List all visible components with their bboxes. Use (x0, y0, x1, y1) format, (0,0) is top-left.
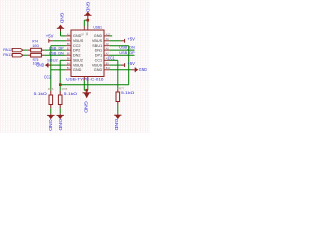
svg-text:R76: R76 (48, 87, 54, 91)
svg-text:CC2: CC2 (73, 44, 81, 48)
wire SBU1 down to bottom bus (128, 46, 130, 85)
wire up to top-left ground flag (60, 31, 62, 36)
svg-text:DN1: DN1 (95, 48, 103, 52)
svg-text:PA11: PA11 (3, 52, 13, 57)
junction dot top (87, 19, 90, 22)
wire joining shield pins (84, 89, 88, 91)
svg-text:SBU2: SBU2 (47, 58, 58, 62)
svg-text:GND: GND (83, 101, 88, 113)
svg-text:10Ω: 10Ω (32, 43, 39, 48)
wire CC2 vertical down (50, 46, 52, 91)
svg-text:GND: GND (58, 119, 63, 131)
junction dot shield ground (85, 89, 88, 92)
svg-text:USB-TYPE-C-016: USB-TYPE-C-016 (66, 77, 103, 82)
svg-text:GND: GND (73, 34, 82, 38)
wire PA11 to R75 (23, 54, 28, 56)
resistor R75 10R series DN (28, 53, 45, 65)
netport PA12 (3, 47, 23, 52)
svg-text:SBU2: SBU2 (73, 59, 83, 63)
svg-text:VBUS: VBUS (73, 39, 84, 43)
wire PA12 to R74 (23, 49, 28, 51)
connector USB1 USB Type-C receptacle body (71, 30, 104, 77)
wire R77 to ground (117, 105, 119, 113)
svg-text:GND: GND (94, 34, 103, 38)
svg-text:GND: GND (36, 63, 44, 68)
svg-text:GND: GND (59, 13, 64, 24)
netport PA11 (3, 52, 23, 57)
resistor R78 SBU pulldown 5.1k (58, 87, 77, 108)
wire row8 left GND (50, 69, 65, 71)
wire row3 right SBU1 (109, 45, 128, 47)
left pin stubs (66, 35, 71, 37)
svg-text:GND: GND (94, 68, 103, 72)
wire row6 left SBU2 (60, 59, 65, 61)
svg-text:R78: R78 (62, 87, 68, 91)
wire row7 right VBUS (109, 64, 121, 66)
wires bottom shield pins down through bus (83, 80, 85, 90)
wire CC1 vertical down (117, 60, 119, 89)
wires top shield pins (83, 20, 85, 26)
svg-text:+5V: +5V (127, 61, 135, 66)
svg-text:GND: GND (114, 119, 119, 131)
ground flag bottom-mid (57, 114, 64, 132)
svg-text:USB_DP: USB_DP (119, 50, 135, 55)
wire row7 left VBUS to ground flag (51, 64, 66, 66)
wire row2 right VBUS (109, 40, 121, 42)
svg-text:SBU1: SBU1 (92, 44, 102, 48)
junction dot bottom bus left (59, 83, 62, 86)
ground flag bottom-center (shield) (83, 90, 91, 113)
svg-text:VBUS: VBUS (92, 63, 103, 67)
wire row4 left DP2 (44, 49, 65, 51)
top shield pin stubs (83, 26, 85, 30)
resistor R74 10R series DP (28, 39, 45, 52)
wire row4 right DN1 (109, 49, 134, 51)
svg-text:CC1: CC1 (108, 55, 116, 60)
svg-text:5.1kΩ: 5.1kΩ (34, 92, 47, 96)
svg-text:GND: GND (86, 2, 91, 13)
svg-text:DP1: DP1 (95, 53, 102, 57)
right pin stubs (104, 35, 109, 37)
wire row8 right GND (109, 69, 132, 71)
wire bottom bus (60, 84, 129, 86)
ground flag bottom-left (47, 114, 54, 132)
svg-text:GND: GND (139, 67, 147, 72)
resistor R77 CC1 pulldown 5.1k (116, 86, 134, 105)
svg-text:+5V: +5V (46, 33, 54, 38)
svg-text:VBUS: VBUS (73, 63, 84, 67)
power flag +5V right top (121, 37, 135, 43)
svg-text:R77: R77 (119, 86, 125, 90)
wire row6 right CC1 (109, 59, 117, 61)
svg-text:5.1kΩ: 5.1kΩ (121, 91, 134, 95)
svg-text:USB1: USB1 (93, 25, 102, 30)
wire row1 left GND pin (61, 35, 66, 37)
ground flag bottom-right (114, 113, 122, 131)
wire row3 left CC2 (51, 45, 66, 47)
wire R76 to ground (50, 108, 52, 113)
wire R78 to ground (59, 108, 61, 113)
svg-text:GND: GND (73, 68, 82, 72)
ground flag top-mid (84, 2, 91, 21)
svg-text:GND: GND (48, 119, 53, 131)
svg-text:DP2: DP2 (73, 48, 80, 52)
svg-text:+5V: +5V (127, 37, 135, 42)
resistor R76 CC2 pulldown 5.1k (34, 87, 54, 108)
wire row2 left VBUS (53, 40, 66, 42)
svg-text:USB_DN: USB_DN (49, 51, 64, 56)
svg-text:CC1: CC1 (95, 59, 103, 63)
svg-text:VBUS: VBUS (92, 39, 103, 43)
power flag +5V right bottom (121, 61, 135, 67)
svg-text:DN2: DN2 (73, 53, 81, 57)
svg-text:5.1kΩ: 5.1kΩ (64, 92, 77, 96)
wire row5 left DN2 (44, 54, 65, 56)
wire row1 right GND stub (109, 35, 112, 37)
power flag +5V left (46, 33, 54, 42)
bottom shield pin stubs (83, 77, 85, 81)
ground flag top-left (57, 13, 65, 32)
ground flag left (36, 63, 51, 68)
ground flag right (132, 67, 147, 72)
wire vertical SBU2 down to junction (59, 60, 61, 91)
wire row5 right DP1 (109, 54, 134, 56)
svg-text:CC2: CC2 (44, 75, 51, 80)
